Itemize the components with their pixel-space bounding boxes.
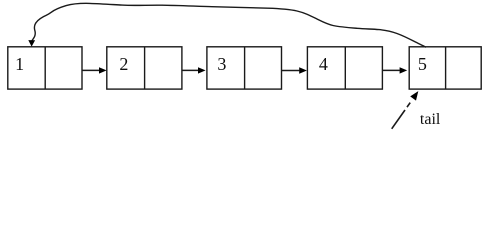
svg-text:4: 4 (319, 54, 328, 74)
node 3 box (207, 47, 282, 89)
svg-text:2: 2 (119, 54, 128, 74)
loop back-edge curve from node5 top to node1 top (28, 3, 426, 47)
svg-text:3: 3 (217, 54, 226, 74)
arrow node4 to node5 (383, 67, 407, 73)
tail pointer dashed arrow (392, 91, 419, 129)
svg-text:tail: tail (420, 111, 441, 128)
node 1 box (8, 47, 82, 89)
arrow node2 to node3 (182, 67, 205, 73)
node 2 box (107, 47, 182, 89)
node 4 box (307, 47, 382, 89)
svg-text:5: 5 (418, 54, 427, 74)
node 5 box (409, 47, 481, 89)
arrow node3 to node4 (282, 67, 307, 73)
svg-text:1: 1 (15, 54, 24, 74)
arrow node1 to node2 (83, 67, 107, 73)
